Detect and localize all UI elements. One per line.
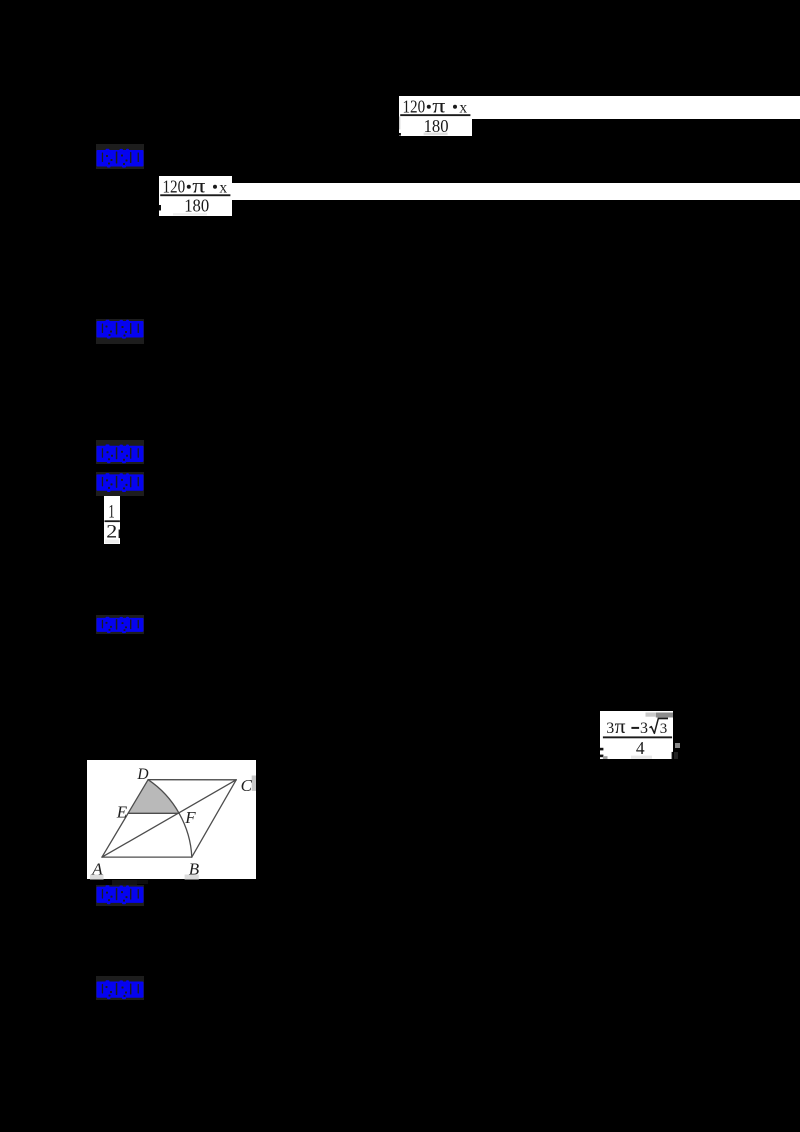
jpeg smudge below B bbox=[185, 874, 199, 879]
wire: white band line 1 (right of fraction 1) bbox=[400, 96, 800, 120]
side CD bbox=[148, 779, 236, 781]
label [jieda] 6 bbox=[96, 885, 144, 906]
jpeg gray patch top-right bbox=[655, 712, 673, 717]
svg-text:F: F bbox=[184, 808, 196, 827]
dark jpeg bar below figure bbox=[112, 880, 137, 885]
svg-text:x: x bbox=[460, 99, 468, 116]
svg-text:120: 120 bbox=[163, 177, 186, 197]
jpeg smudge below A bbox=[90, 874, 104, 879]
arc D to B centered at A bbox=[148, 780, 192, 857]
svg-text:180: 180 bbox=[424, 116, 449, 136]
fraction image 1/2 bbox=[104, 496, 120, 545]
fraction image 2: 120*pi*x/180 bbox=[159, 176, 232, 215]
side BC bbox=[192, 780, 236, 857]
svg-text:3: 3 bbox=[606, 720, 614, 737]
side AB bbox=[102, 856, 192, 858]
period remnant at right edge bbox=[671, 752, 673, 759]
svg-text:C: C bbox=[241, 776, 253, 795]
svg-text:A: A bbox=[92, 859, 104, 878]
label [dianping] 2 bbox=[96, 319, 144, 344]
svg-text:B: B bbox=[189, 859, 200, 878]
geometry figure box bbox=[87, 760, 256, 879]
svg-text:3: 3 bbox=[640, 720, 648, 737]
svg-text:3: 3 bbox=[659, 721, 667, 737]
shaded segment region DEF bbox=[128, 780, 179, 814]
label [jieda] 1 bbox=[96, 144, 144, 169]
jpeg smudge right of C bbox=[252, 775, 256, 790]
wire: white band line 2 (right of fraction 2) bbox=[232, 183, 800, 199]
side DA bbox=[102, 780, 148, 857]
svg-text:4: 4 bbox=[635, 738, 644, 758]
label [dianping] 5 bbox=[96, 615, 144, 635]
svg-text:π: π bbox=[614, 714, 625, 738]
svg-text:E: E bbox=[116, 802, 128, 821]
svg-text:120: 120 bbox=[403, 96, 426, 116]
label [dianping] 7 bbox=[96, 976, 144, 1000]
label [fenxi] 3 bbox=[96, 440, 144, 464]
fraction image 3: (3pi-3sqrt3)/4 bbox=[600, 711, 674, 760]
svg-text:2: 2 bbox=[106, 521, 117, 542]
fraction image 1: 120*pi*x/180 bbox=[399, 96, 472, 136]
equal-sign remnant at left edge bbox=[600, 748, 603, 751]
svg-text:x: x bbox=[220, 180, 228, 197]
label [jieda] 4 bbox=[96, 472, 144, 495]
svg-text:D: D bbox=[137, 766, 149, 783]
diagonal AC bbox=[102, 780, 236, 857]
svg-text:1: 1 bbox=[108, 501, 114, 522]
segment EF bbox=[128, 812, 179, 814]
svg-text:180: 180 bbox=[184, 196, 209, 216]
gray blob right of box bbox=[675, 743, 681, 749]
